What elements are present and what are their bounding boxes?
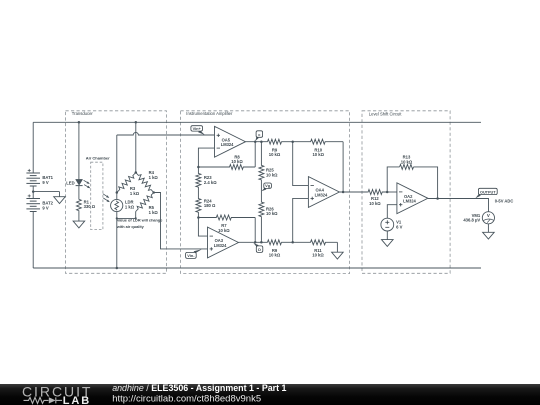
node D junction R7 [254,241,257,244]
svg-text:180 Ω: 180 Ω [204,203,216,208]
ground mid supply [59,192,61,197]
op-amp OA2 LM324 [397,183,428,214]
resistor R4 1k [134,171,156,194]
ground below R11 [336,242,338,252]
flag Vin+ [198,130,205,135]
svg-text:Vin-: Vin- [187,253,195,258]
node OA2 feedback junction [386,191,389,194]
footer bar [0,384,540,405]
wire OA5 inverting feedback [198,148,214,167]
svg-text:9 V: 9 V [42,180,48,185]
wire OA2 feedback loop [387,167,399,192]
svg-text:LM324: LM324 [315,192,328,197]
battery BAT2 9V [26,198,40,200]
ground below R1 [73,221,85,228]
wire between batteries [32,186,34,199]
section box Transducer [66,111,167,273]
svg-text:10 kΩ: 10 kΩ [218,228,230,233]
photoresistor LDR 1k [111,199,123,211]
svg-text:LED: LED [66,181,74,186]
flag Vin- [194,249,202,253]
svg-text:10 kΩ: 10 kΩ [269,152,281,157]
svg-text:http://circuitlab.com/ct8h8ed8: http://circuitlab.com/ct8h8ed8v9nk5 [112,394,261,405]
node R8 left junction [197,166,200,169]
node bridge right vertex [152,191,155,194]
wire OA3 output row [239,241,268,243]
wire top supply rail [33,121,481,123]
wire OA5 output row [246,141,268,143]
wire Vin+ row with hop [117,132,215,135]
svg-text:LAB: LAB [63,395,91,405]
flag Vg [262,187,267,191]
node R24 bottom junction [197,216,200,219]
svg-text:10 kΩ: 10 kΩ [312,253,324,258]
resistor R25 10k [259,142,264,192]
wire V1 to ground [386,231,388,240]
svg-text:Value of LDR will change: Value of LDR will change [117,219,162,223]
wire R9b to junction [282,241,293,243]
wire bridge bottom link [117,217,136,219]
node label C [255,137,258,141]
section box Instrumentation Amplifier [181,111,350,274]
node OA4 non-inverting junction [291,241,294,244]
wire battery top lead [32,122,34,173]
svg-text:OUTPUT: OUTPUT [480,190,496,194]
voltmeter VM1 [482,212,494,224]
wire to mid ground [33,191,59,193]
resistor R3 1k [115,171,138,194]
svg-text:Air Chamber: Air Chamber [86,155,110,160]
resistor R7 10k [198,215,255,220]
wire R12 to OA2 [387,191,397,193]
wire VM1 to ground [487,224,489,232]
LDR top lead [116,193,118,200]
svg-text:Transducer: Transducer [72,111,94,116]
node battery midpoint [32,190,35,193]
wire OA4 inverting input [293,142,309,186]
resistor R13 10k [400,164,414,169]
svg-text:LM324: LM324 [214,243,227,248]
resistor R11 10k [293,240,338,245]
wire R1 to ground [78,212,80,221]
wire OA3 inverting input [198,218,207,237]
wire bridge right to Vin- row [154,193,208,249]
svg-text:10 kΩ: 10 kΩ [369,201,381,206]
svg-text:10 kΩ: 10 kΩ [266,211,278,216]
node bridge top rail junction [135,121,138,124]
node bridge left vertex [116,191,119,194]
node OA2 output junction [436,197,439,200]
wire LED cathode to R1 [78,186,80,198]
svg-text:andhine / ELE3506 - Assignment: andhine / ELE3506 - Assignment 1 - Part … [112,383,286,393]
op-amp OA5 LM324 [215,126,246,157]
resistor R9 10k top [267,139,281,144]
voltage source V1 6V [381,218,394,231]
svg-text:10 kΩ: 10 kΩ [312,152,324,157]
resistor R10 10k [293,139,343,144]
resistor R5 1k [134,191,156,213]
node C junction R8 [254,140,257,143]
section box Level Shift Circuit [362,111,450,273]
svg-text:10 kΩ: 10 kΩ [269,253,281,258]
svg-text:436.8 µV: 436.8 µV [463,218,480,223]
resistor R24 180ohm [196,198,201,218]
svg-text:2.4 kΩ: 2.4 kΩ [204,180,217,185]
flag OUTPUT [475,194,480,199]
op-amp OA4 LM324 [308,177,339,208]
LED D1 [76,179,83,185]
resistor R8 10k [198,165,255,170]
battery BAT1 9V [26,172,40,174]
wire OA2 output row [428,199,489,212]
svg-text:D: D [258,247,261,252]
op-amp OA3 LM324 [208,227,239,258]
svg-text:LM324: LM324 [221,142,234,147]
node LED rail junction [78,121,81,124]
LDR light arrows [103,194,109,198]
resistor R23 2.4k [196,167,201,198]
svg-text:9 V: 9 V [42,205,48,210]
node C junction R25 [260,140,263,143]
svg-text:10 kΩ: 10 kΩ [401,160,413,165]
ground below V1 [382,240,394,247]
wire LED anode lead [78,122,80,179]
node label D [253,243,258,247]
resistor R1 330ohm [77,198,82,212]
wire R13 to output [414,167,438,199]
svg-text:LM324: LM324 [403,199,416,204]
wire OA2 non-inverting to V1 [387,205,397,219]
wire battery bottom lead [32,212,34,269]
resistor R26 10k [259,192,264,243]
svg-text:1 kΩ: 1 kΩ [130,191,140,196]
wire OA4 non-inverting input [293,198,309,242]
svg-text:10 kΩ: 10 kΩ [266,172,278,177]
node OA4 output junction [342,191,345,194]
resistor R9 10k bottom [267,240,282,245]
wire bridge left to Vin+ row [116,135,118,193]
svg-text:1 kΩ: 1 kΩ [125,205,135,210]
wire bottom supply rail [33,267,481,269]
svg-text:Vin+: Vin+ [193,126,202,131]
wire bridge top feed [135,122,137,172]
svg-text:330 Ω: 330 Ω [84,204,96,209]
wire OA4 output row [339,191,368,193]
svg-text:1 kΩ: 1 kΩ [149,175,159,180]
wire R5 bottom stub [135,212,137,219]
node D junction R26 [260,241,263,244]
svg-text:with air quality: with air quality [116,225,145,229]
wire R8 up to output [254,142,256,167]
svg-text:V: V [487,213,490,218]
svg-text:1 kΩ: 1 kΩ [149,210,159,215]
svg-text:Level Shift Circuit: Level Shift Circuit [369,111,402,116]
LED light arrows [84,180,90,183]
node OA4 inverting junction [291,140,294,143]
resistor R12 10k [368,190,387,195]
wire R9 to junction [282,141,293,143]
wire R10 down to OA4 output [342,142,344,192]
section box Air Chamber [91,162,103,229]
svg-text:0-5V ADC: 0-5V ADC [495,199,514,204]
svg-text:Vg: Vg [265,183,271,188]
node LDR bottom rail junction [116,267,119,270]
svg-text:10 kΩ: 10 kΩ [231,159,243,164]
node bridge top vertex [135,171,138,174]
svg-text:Instrumentation Amplifier: Instrumentation Amplifier [186,111,233,116]
wire R7 down to D row [254,218,256,243]
wire LDR bottom to bottom rail [116,212,118,268]
ground below VM1 [483,232,495,239]
svg-text:6 V: 6 V [396,224,402,229]
